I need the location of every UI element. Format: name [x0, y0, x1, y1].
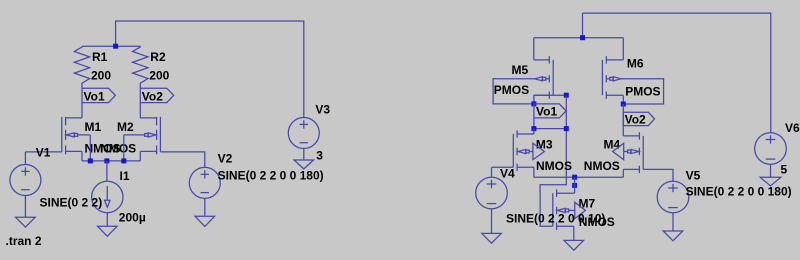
svg-text:SINE(0 2 2 0 0 180): SINE(0 2 2 0 0 180) [686, 184, 792, 198]
transistor M6 [602, 56, 660, 99]
transistor M3 [513, 130, 572, 173]
voltage source V6 [755, 121, 800, 176]
node Vo1 flag right [534, 104, 566, 119]
transistor M2 [100, 117, 160, 155]
ground flag M7 bulk [575, 202, 586, 218]
node junction Vo1-M3 [531, 126, 536, 131]
wire to V3 [116, 21, 304, 118]
wire M3 drain up [533, 129, 535, 134]
svg-text:V5: V5 [686, 169, 701, 183]
wire M5 source [533, 38, 535, 60]
svg-text:R1: R1 [92, 50, 108, 64]
wire top rail left circuit [82, 45, 140, 47]
ground V6 [760, 177, 781, 186]
transistor M1 [62, 117, 121, 155]
ground V4 [482, 233, 502, 243]
node junction top [113, 44, 118, 49]
voltage source V3 [288, 102, 330, 162]
node junction M3 drain link right [564, 126, 569, 131]
svg-text:200µ: 200µ [119, 211, 146, 225]
wire M2 gate to V2 [160, 152, 204, 168]
wire M4 source down [622, 169, 624, 177]
ground V1 [16, 217, 36, 227]
wire V6 bottom [770, 164, 772, 177]
svg-text:NMOS: NMOS [100, 141, 136, 155]
node junction M5 drain rail [564, 93, 569, 98]
wire common source rail [82, 160, 140, 162]
wire V4 top [491, 167, 493, 177]
ground flag M3 bulk [533, 143, 545, 160]
ground V5 [663, 231, 683, 241]
wire M5 drain to flag junction [533, 95, 535, 104]
wire M5 drain [534, 94, 567, 96]
svg-text:I1: I1 [120, 169, 130, 183]
wire rail drop [582, 13, 584, 38]
transistor M4 [584, 132, 643, 173]
ground M7 [564, 240, 584, 250]
wire M5 drain to M7 gate vertical [540, 95, 566, 226]
ground flag M4 bulk [613, 143, 624, 160]
node junction M1 bulk [88, 158, 93, 163]
wire dots to M7 drain [574, 177, 576, 193]
wire Vo2 to M2 drain [139, 103, 141, 118]
ground V2 [195, 216, 215, 226]
node junction M7 drain tap [572, 175, 577, 180]
wire M1 gate to V1 [25, 151, 61, 153]
wire V3 bottom [303, 149, 305, 161]
wire M3 drain link [534, 128, 566, 130]
wire I1 to ground [106, 213, 108, 227]
svg-text:SINE(0 2 2 0 0 180): SINE(0 2 2 0 0 180) [218, 169, 324, 183]
node junction top rail [580, 35, 585, 40]
wire V2 bottom [204, 198, 206, 216]
transistor M5 [494, 56, 553, 99]
svg-text:.tran 2: .tran 2 [6, 234, 42, 248]
transistor M7 [553, 190, 615, 231]
voltage source V1 [10, 146, 102, 210]
svg-text:Vo1: Vo1 [536, 105, 557, 119]
node junction M2 bulk [121, 158, 126, 163]
resistor R2 [133, 46, 170, 88]
svg-text:5: 5 [781, 162, 788, 176]
wire M3 gate to V4 [492, 166, 513, 168]
svg-text:NMOS: NMOS [584, 159, 620, 173]
svg-text:V4: V4 [500, 167, 515, 181]
wire M2 source down [139, 151, 141, 161]
node Vo2 flag [140, 88, 173, 103]
svg-text:Vo2: Vo2 [625, 112, 646, 126]
svg-text:M6: M6 [627, 57, 644, 71]
svg-text:V6: V6 [785, 121, 800, 135]
resistor R1 [74, 46, 111, 88]
svg-text:M5: M5 [512, 63, 529, 77]
wire M1 source down [81, 151, 83, 161]
voltage source V4 [476, 167, 606, 226]
svg-text:V3: V3 [315, 102, 330, 116]
wire M7 source down [573, 226, 575, 240]
node junction M6 drain-bulk [621, 102, 626, 107]
wire Vo1 to M3 junction [533, 118, 535, 129]
svg-text:V1: V1 [36, 146, 51, 160]
svg-text:V2: V2 [218, 151, 233, 165]
svg-text:PMOS: PMOS [625, 84, 660, 98]
svg-text:3: 3 [316, 149, 323, 163]
wire M2 bulk down [123, 135, 125, 161]
wire V5 bottom [672, 213, 674, 231]
wire M5/M6 source rail [534, 37, 624, 39]
svg-text:Vo2: Vo2 [142, 89, 163, 103]
svg-text:M2: M2 [117, 120, 134, 134]
wire M3/M4 source rail [534, 176, 623, 178]
wire V1 top [24, 152, 26, 165]
svg-text:SINE(0 2 2 0 0 10): SINE(0 2 2 0 0 10) [506, 212, 605, 226]
svg-text:M4: M4 [604, 138, 621, 152]
node junction M5 drain-bulk [531, 101, 536, 106]
svg-text:M7: M7 [579, 197, 596, 211]
wire Vo2 vertical M6 to M4 [622, 104, 624, 136]
wire M6 drain down [622, 95, 624, 104]
svg-text:200: 200 [91, 69, 111, 83]
wire M4 gate to V5 [643, 169, 673, 181]
wire top rail to V6 [583, 13, 771, 133]
node junction I1 tap [104, 158, 109, 163]
wire M5 bulk loop [493, 79, 534, 104]
svg-text:M1: M1 [85, 120, 102, 134]
node Vo1 flag [82, 88, 115, 103]
svg-text:200: 200 [149, 69, 169, 83]
svg-text:SINE(0 2 2): SINE(0 2 2) [40, 196, 103, 210]
wire M3 source down [533, 167, 535, 177]
directive .tran 2 [6, 234, 42, 248]
svg-text:M3: M3 [536, 138, 553, 152]
wire M6 bulk loop [621, 79, 664, 104]
current source I1 [92, 169, 146, 225]
ground I1 [98, 226, 118, 236]
voltage source V2 [189, 151, 323, 198]
ground V3 [294, 160, 314, 169]
wire V4 bottom [491, 209, 493, 234]
svg-text:NMOS: NMOS [536, 159, 572, 173]
voltage source V5 [657, 169, 791, 213]
node junction M7 bulk tap [572, 183, 577, 188]
node Vo2 flag right [623, 112, 654, 126]
wire Vo1 to M1 drain [81, 103, 83, 118]
svg-text:R2: R2 [150, 50, 166, 64]
svg-text:PMOS: PMOS [494, 83, 529, 97]
wire V1 bottom [24, 196, 26, 218]
wire rail to I1 [106, 161, 108, 181]
svg-text:Vo1: Vo1 [84, 89, 105, 103]
wire M1 bulk down [89, 135, 91, 161]
wire M6 source [622, 38, 624, 60]
